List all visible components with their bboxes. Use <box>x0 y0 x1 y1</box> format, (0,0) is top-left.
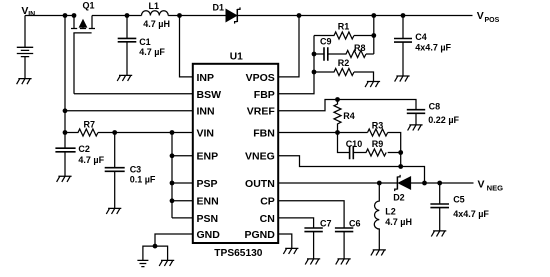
node INN junction <box>63 108 68 113</box>
node D2 anode junction <box>422 181 427 186</box>
wire VIN top rail left segment <box>25 15 75 17</box>
svg-text:PSP: PSP <box>197 178 218 190</box>
ground below L2 <box>371 250 386 256</box>
wire top rail right segment (Q1 drain to VPOS label) <box>92 15 473 17</box>
resistor R8 <box>328 51 374 58</box>
svg-text:OUTN: OUTN <box>245 178 275 190</box>
node R3/R9 right junction <box>398 150 403 155</box>
ground below C4 <box>395 76 410 82</box>
ground below C3 <box>106 208 121 214</box>
wire CP to C6 <box>278 201 344 228</box>
wire Q1 gate to BSW <box>74 33 193 94</box>
capacitor C7 <box>304 228 322 232</box>
svg-text:D2: D2 <box>393 193 405 203</box>
capacitor C9 <box>314 53 324 55</box>
svg-text:R7: R7 <box>84 120 96 130</box>
node R2 left junction <box>312 70 317 75</box>
svg-text:C6: C6 <box>349 219 361 229</box>
node L1/INP junction <box>177 13 182 18</box>
wire left vertical VIN branch <box>64 16 66 133</box>
ground below C7 <box>305 259 320 265</box>
wire FBP to feedback node <box>278 36 314 94</box>
svg-text:4.7 µF: 4.7 µF <box>78 155 104 165</box>
svg-text:U1: U1 <box>230 51 243 62</box>
wire PSP <box>172 182 193 184</box>
node R4 bottom junction <box>335 130 340 135</box>
svg-text:GND: GND <box>197 229 221 241</box>
capacitor C4 <box>402 16 404 39</box>
ground below C5 <box>431 231 446 237</box>
svg-text:C7: C7 <box>320 219 332 229</box>
svg-text:C2: C2 <box>78 144 90 154</box>
svg-text:C10: C10 <box>346 139 363 149</box>
wire CN to C7 <box>278 218 313 228</box>
ground below C8 <box>408 125 423 131</box>
node L2 junction <box>377 181 382 186</box>
svg-text:C3: C3 <box>130 164 142 174</box>
svg-text:INN: INN <box>197 106 215 118</box>
wire battery bottom lead <box>24 57 26 79</box>
svg-text:PGND: PGND <box>244 229 275 241</box>
node C5 junction <box>437 181 442 186</box>
wire PGND to ground <box>278 234 292 248</box>
resistor R9 <box>353 149 400 156</box>
Q1 body arrow <box>80 20 87 27</box>
wire D2 anode to VNEG label <box>411 182 474 184</box>
capacitor C1 <box>126 16 128 39</box>
svg-text:PSN: PSN <box>197 213 219 225</box>
svg-text:R9: R9 <box>372 139 384 149</box>
node R1 rail junction <box>371 13 376 18</box>
node VNEG jog junction <box>398 164 403 169</box>
svg-text:4x4.7 µF: 4x4.7 µF <box>453 209 489 219</box>
svg-text:CP: CP <box>260 196 275 208</box>
svg-text:R2: R2 <box>338 58 350 68</box>
wire INP <box>180 16 193 77</box>
svg-text:BSW: BSW <box>197 89 222 101</box>
svg-text:L2: L2 <box>385 207 396 217</box>
Q1 drain leg <box>91 16 93 29</box>
svg-text:TPS65130: TPS65130 <box>214 248 262 259</box>
svg-text:INP: INP <box>197 72 215 84</box>
wire VNEG pin jog <box>278 156 424 183</box>
ground below R2 <box>365 82 380 88</box>
capacitor C2 <box>64 133 66 149</box>
svg-text:C1: C1 <box>139 37 151 47</box>
resistor R3 <box>368 129 401 153</box>
resistor R4 <box>334 100 341 133</box>
resistor R7 <box>65 129 193 136</box>
svg-text:VIN: VIN <box>197 127 215 139</box>
svg-text:0.22 µF: 0.22 µF <box>428 115 459 125</box>
ground below C1 <box>117 75 132 81</box>
resistor R2 <box>314 69 374 82</box>
wire VREF to R4/C8 <box>278 100 416 111</box>
node VIN rail junction <box>63 13 68 18</box>
svg-text:D1: D1 <box>213 3 225 13</box>
wire battery top lead <box>24 16 26 48</box>
node R1 right junction <box>371 33 376 38</box>
ground chassis style at GND <box>159 260 174 266</box>
svg-text:C4: C4 <box>415 32 427 42</box>
wire ENP <box>172 155 193 157</box>
node VPOS rail junction <box>297 13 302 18</box>
svg-text:R3: R3 <box>372 121 384 131</box>
svg-text:C9: C9 <box>320 37 332 47</box>
svg-text:ENN: ENN <box>197 196 219 208</box>
wire R3/R9 node down to VNEG rail <box>400 153 402 167</box>
svg-text:L1: L1 <box>149 1 160 11</box>
svg-text:C5: C5 <box>453 195 465 205</box>
svg-text:V: V <box>477 10 484 22</box>
svg-text:VNEG: VNEG <box>245 151 275 163</box>
wire R1 right to rail and down to R8 <box>373 16 375 55</box>
svg-text:VPOS: VPOS <box>246 72 275 84</box>
node R4 top junction <box>335 97 340 102</box>
ground below PGND <box>283 248 298 254</box>
svg-text:ENP: ENP <box>197 151 219 163</box>
node C9 left junction <box>312 52 317 57</box>
capacitor C5 <box>439 183 441 204</box>
svg-text:R8: R8 <box>354 43 366 53</box>
ground earth style at GND <box>137 260 148 266</box>
node GND split junction <box>153 244 158 249</box>
svg-text:4.7 µH: 4.7 µH <box>385 217 412 227</box>
capacitor C6 <box>335 228 353 232</box>
svg-text:FBN: FBN <box>253 127 275 139</box>
op-amp U1 IC box <box>193 64 278 243</box>
diode D1 <box>226 7 240 23</box>
Q1 channel segments <box>71 28 95 30</box>
svg-text:4.7 µH: 4.7 µH <box>143 19 170 29</box>
node C4 rail junction <box>401 13 406 18</box>
node PSP junction <box>170 181 175 186</box>
wire OUTN row <box>278 182 397 184</box>
svg-text:NEG: NEG <box>487 183 504 192</box>
ground below C6 <box>336 259 351 265</box>
node R7/C2 junction <box>63 130 68 135</box>
capacitor C10 <box>338 133 350 153</box>
node C1 junction <box>125 13 130 18</box>
svg-text:IN: IN <box>28 11 35 18</box>
inductor L1 <box>142 11 169 16</box>
Q1 source leg <box>73 16 75 29</box>
Q1 gate plate <box>73 32 91 34</box>
svg-text:V: V <box>478 178 485 190</box>
battery V1 plates <box>17 47 33 56</box>
diode D2 <box>395 175 411 191</box>
svg-text:FBP: FBP <box>254 89 275 101</box>
svg-text:0.1 µF: 0.1 µF <box>130 174 156 184</box>
svg-text:C8: C8 <box>429 102 441 112</box>
transistor Q1 <box>71 16 95 33</box>
svg-text:R4: R4 <box>343 111 355 121</box>
svg-text:Q1: Q1 <box>83 0 95 10</box>
svg-text:VREF: VREF <box>247 106 276 118</box>
svg-text:R1: R1 <box>338 21 350 31</box>
wire INN <box>65 110 193 112</box>
node Q1 source junction <box>72 13 77 18</box>
svg-text:CN: CN <box>260 213 275 225</box>
svg-text:4.7 µF: 4.7 µF <box>139 47 165 57</box>
node ENN junction <box>170 198 175 203</box>
capacitor C3 <box>114 133 116 168</box>
inductor L2 <box>374 183 379 250</box>
svg-text:POS: POS <box>485 17 500 24</box>
wire ENN <box>172 200 193 202</box>
ground below C2 <box>57 176 72 182</box>
wire GND pin to grounds <box>143 234 193 260</box>
node C3 junction <box>112 130 117 135</box>
node ENP junction <box>170 153 175 158</box>
wire VPOS to rail <box>278 16 299 77</box>
ground below battery <box>17 79 32 85</box>
svg-text:4x4.7 µF: 4x4.7 µF <box>415 42 451 52</box>
wire FBN row <box>278 132 367 134</box>
node VIN pin junction <box>170 130 175 135</box>
wire VIN/ENP/PSP/ENN/PSN tie vertical <box>171 133 173 218</box>
wire PSN <box>172 217 193 219</box>
resistor R1 <box>314 32 374 39</box>
capacitor C8 <box>407 110 425 114</box>
